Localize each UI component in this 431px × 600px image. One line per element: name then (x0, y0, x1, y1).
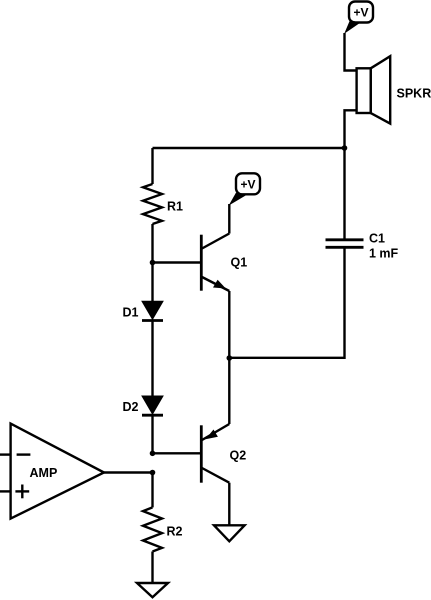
transistor Q1 (201, 234, 229, 292)
svg-text:Q2: Q2 (230, 449, 247, 463)
wire speaker bottom terminal to node (345, 110, 357, 148)
power flag +V (Q1 collector) (229, 173, 260, 205)
wire top horizontal rail (153, 147, 345, 149)
speaker SPKR (357, 56, 391, 123)
svg-text:1 mF: 1 mF (369, 247, 399, 261)
wire D2 cathode to Q2 base node (151, 415, 153, 453)
wire R2 bottom lead (151, 552, 153, 584)
svg-text:R2: R2 (167, 525, 183, 539)
power flag +V (speaker supply) (344, 2, 373, 34)
wire +V to speaker top terminal (345, 33, 357, 71)
ground (Q2 collector) (214, 525, 245, 541)
node op-amp output junction (150, 470, 156, 476)
resistor R2 (143, 507, 162, 551)
svg-text:+V: +V (353, 6, 368, 20)
svg-text:C1: C1 (369, 232, 385, 246)
diode D2 (142, 396, 163, 415)
diode D1 (142, 301, 163, 320)
wire inverting input stub (0, 453, 11, 455)
svg-text:D2: D2 (123, 400, 139, 414)
wire Q2 collector lead (228, 483, 230, 526)
wire R2 top lead (151, 473, 153, 508)
svg-text:Q1: Q1 (231, 256, 248, 270)
op-amp AMP (11, 424, 104, 519)
wire output node to capacitor bottom (229, 247, 344, 357)
svg-text:+V: +V (240, 177, 255, 191)
wire D1 to D2 (151, 321, 153, 397)
transistor Q2 (201, 424, 229, 483)
wire op-amp output (104, 471, 153, 473)
wire R1 bottom lead (151, 224, 153, 263)
capacitor C1 (326, 240, 364, 248)
wire Q1 emitter lead (228, 291, 230, 358)
svg-text:D1: D1 (123, 306, 139, 320)
wire D1 anode lead (151, 263, 153, 302)
node Q2 base junction (150, 451, 156, 457)
wire Q1 base (153, 261, 202, 263)
ground (R2) (137, 583, 168, 597)
wire C1 top lead (343, 148, 345, 240)
wire Q2 base (153, 452, 202, 454)
wire Q1 collector (228, 204, 230, 234)
svg-text:AMP: AMP (30, 466, 58, 480)
node Q1 base junction (150, 260, 156, 266)
resistor R1 (143, 184, 162, 224)
wire R1 top lead (151, 148, 153, 184)
wire non-inverting input stub (0, 490, 11, 492)
svg-text:SPKR: SPKR (397, 87, 431, 101)
node junction top right (342, 145, 348, 151)
svg-text:R1: R1 (167, 200, 183, 214)
node output junction (227, 355, 233, 361)
wire Q2 emitter lead (228, 358, 230, 424)
